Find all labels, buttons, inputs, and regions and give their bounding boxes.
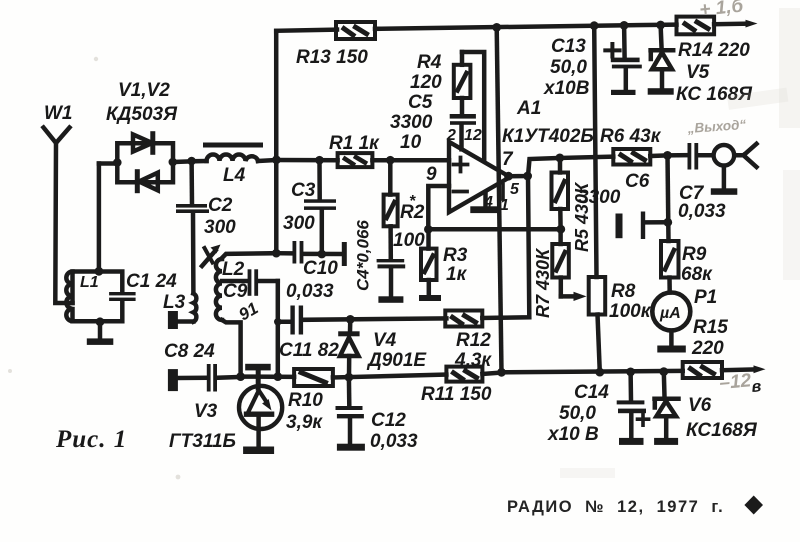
node V4 top bbox=[346, 315, 355, 324]
svg-text:С6: С6 bbox=[625, 171, 650, 192]
meter P1 bbox=[652, 293, 690, 346]
capacitor C7 bbox=[688, 143, 714, 170]
wire riser down to R12 bbox=[501, 176, 529, 318]
resistor R5 bbox=[552, 158, 569, 229]
svg-text:КС168Я: КС168Я bbox=[686, 420, 758, 441]
terminal bar C8 bbox=[168, 369, 178, 391]
svg-text:3,9к: 3,9к bbox=[286, 412, 323, 433]
node rail x594 bbox=[590, 21, 599, 30]
ground V6 bbox=[654, 438, 678, 445]
inductor L1 bbox=[66, 272, 72, 322]
wire R10 to R11 bbox=[333, 375, 447, 378]
wire R6 node down bbox=[668, 155, 669, 241]
node bus C14 bbox=[626, 368, 635, 377]
svg-text:К1УТ402Б: К1УТ402Б bbox=[502, 126, 594, 147]
svg-text:ГТ311Б: ГТ311Б bbox=[169, 431, 236, 452]
wire tank ground stub bbox=[98, 322, 103, 339]
ground V5 bbox=[648, 88, 674, 95]
svg-text:R14 220: R14 220 bbox=[678, 40, 750, 61]
svg-text:+ 1,б: + 1,б bbox=[698, 0, 745, 21]
inductor L2 bbox=[216, 259, 222, 320]
resistor R10 bbox=[294, 369, 333, 386]
wire inverting input bbox=[428, 186, 449, 229]
svg-text:С2: С2 bbox=[208, 195, 233, 216]
svg-text:R9: R9 bbox=[682, 244, 707, 265]
arrow wiper head bbox=[574, 292, 587, 301]
svg-text:V4: V4 bbox=[373, 330, 397, 351]
node bridge left bbox=[113, 158, 122, 167]
svg-text:300: 300 bbox=[283, 213, 315, 234]
svg-text:С8 24: С8 24 bbox=[164, 341, 215, 362]
resistor R14 bbox=[677, 17, 715, 35]
node R6 right bbox=[663, 151, 672, 160]
svg-text:С9: С9 bbox=[223, 281, 248, 302]
svg-text:С1 24: С1 24 bbox=[126, 271, 177, 292]
svg-text:С10: С10 bbox=[303, 258, 338, 279]
pin 1 stub bbox=[501, 185, 505, 200]
node tank top bbox=[95, 267, 104, 276]
svg-text:*: * bbox=[409, 193, 416, 210]
svg-text:С12: С12 bbox=[371, 410, 406, 431]
wire L4 segment bbox=[192, 160, 277, 161]
svg-text:7: 7 bbox=[502, 149, 514, 170]
wire corner to C11 bbox=[278, 320, 291, 325]
node V4 bottom bbox=[345, 373, 354, 382]
svg-text:А1: А1 bbox=[516, 98, 541, 119]
node L2 top junction bbox=[272, 249, 281, 258]
tank circuit L1 C1 loop bbox=[73, 272, 123, 322]
svg-text:R12: R12 bbox=[456, 330, 491, 351]
wire rail to R8 bbox=[594, 26, 596, 277]
pin 4 ground stub bbox=[483, 193, 488, 207]
transistor V3 bbox=[239, 364, 282, 447]
arrow supply right bbox=[746, 20, 758, 28]
ground C12 bbox=[337, 444, 365, 451]
wire bridge frame bbox=[117, 143, 191, 182]
resistor R15 bbox=[683, 362, 722, 378]
svg-text:0,033: 0,033 bbox=[678, 201, 726, 222]
wire vertical x498 rail to bottom bbox=[497, 27, 502, 372]
inductor L3 bbox=[193, 294, 196, 322]
resistor R2 bbox=[384, 160, 398, 259]
capacitor C3 bbox=[304, 160, 336, 254]
svg-text:W1: W1 bbox=[44, 103, 73, 124]
svg-text:Рис. 1: Рис. 1 bbox=[55, 426, 127, 453]
svg-text:R3: R3 bbox=[443, 245, 468, 266]
capacitor C12 bbox=[336, 377, 364, 444]
svg-text:–12: –12 bbox=[719, 370, 753, 394]
wire C10 run bbox=[276, 251, 342, 256]
connector X1 output bbox=[714, 144, 757, 189]
svg-text:С13: С13 bbox=[551, 36, 586, 57]
capacitor C13 bbox=[611, 25, 642, 90]
arrow tuning L2 bbox=[202, 245, 221, 267]
node R3 top bbox=[424, 225, 433, 234]
svg-text:V3: V3 bbox=[194, 401, 218, 422]
svg-text:R8: R8 bbox=[611, 281, 636, 302]
terminal bar L3 bbox=[168, 311, 178, 329]
antenna W1 bbox=[44, 128, 73, 304]
node bus R8 bbox=[595, 368, 604, 377]
wire R4 C5 loop bbox=[462, 52, 484, 161]
op-amp A1 triangle bbox=[449, 142, 510, 212]
capacitor C11 bbox=[290, 306, 446, 335]
svg-text:С4*0,066: С4*0,066 bbox=[354, 220, 373, 291]
capacitor C10 bbox=[293, 241, 304, 264]
decoration diamond bbox=[744, 496, 763, 515]
svg-text:L2: L2 bbox=[222, 259, 245, 280]
wire C8 left bbox=[178, 376, 207, 381]
svg-text:0,033: 0,033 bbox=[286, 281, 334, 302]
capacitor C9 bbox=[248, 269, 278, 296]
svg-text:L3: L3 bbox=[163, 292, 186, 313]
op-amp minus input sign bbox=[454, 190, 468, 194]
svg-text:R13 150: R13 150 bbox=[296, 47, 368, 68]
node bridge right bbox=[169, 158, 178, 167]
node rail x497 bbox=[492, 23, 501, 32]
svg-text:х10В: х10В bbox=[543, 78, 590, 99]
wire base run bbox=[241, 374, 295, 379]
node bus R11 bbox=[497, 368, 506, 377]
wire L2 top bbox=[222, 253, 276, 258]
svg-text:120: 120 bbox=[410, 72, 442, 93]
wire R6 run bbox=[560, 155, 688, 158]
resistor R12 bbox=[445, 311, 482, 327]
node L4 junction bbox=[272, 155, 281, 164]
svg-text:220: 220 bbox=[691, 338, 724, 359]
svg-text:12: 12 bbox=[464, 127, 482, 144]
node R2 junction bbox=[386, 156, 395, 165]
node output apex bbox=[504, 172, 513, 181]
node R5 top bbox=[555, 154, 564, 163]
svg-text:в: в bbox=[751, 378, 762, 396]
wire C9 down to C11 bbox=[276, 281, 281, 377]
node tank bottom bbox=[96, 317, 105, 326]
svg-text:V1,V2: V1,V2 bbox=[118, 80, 170, 101]
svg-text:х10 В: х10 В bbox=[547, 424, 599, 445]
top supply rail bbox=[276, 24, 748, 32]
resistor R13 bbox=[336, 22, 375, 39]
ground R3 bbox=[419, 295, 441, 301]
zener V5 bbox=[651, 25, 674, 89]
svg-text:С14: С14 bbox=[574, 382, 609, 403]
svg-text:2: 2 bbox=[446, 127, 456, 144]
inductor L4 bbox=[203, 143, 263, 162]
svg-text:Р1: Р1 bbox=[694, 287, 717, 308]
resistor R3 bbox=[421, 229, 437, 295]
wire feedback bus bbox=[428, 227, 561, 232]
diode V4 bbox=[338, 319, 359, 377]
diode V1 bbox=[133, 134, 153, 153]
node C6 junction bbox=[663, 218, 672, 227]
wire bridge-to-tank bbox=[97, 164, 102, 271]
wire L3 bottom bbox=[179, 319, 193, 324]
node base right bbox=[273, 372, 282, 381]
resistor R6 bbox=[613, 149, 650, 165]
svg-text:R11 150: R11 150 bbox=[421, 384, 492, 405]
zener V6 bbox=[655, 372, 679, 439]
ground V3 emitter bbox=[243, 447, 274, 455]
capacitor C2 bbox=[176, 161, 209, 293]
node C11 corner bbox=[274, 318, 282, 326]
wire output to riser bbox=[509, 158, 560, 176]
op-amp plus input sign bbox=[454, 158, 468, 172]
node rail C13 bbox=[620, 21, 629, 30]
wire rail left corner down bbox=[274, 31, 279, 253]
svg-text:V5: V5 bbox=[686, 62, 710, 83]
bottom bus bbox=[502, 369, 755, 372]
svg-text:3300: 3300 bbox=[390, 112, 433, 133]
node output riser bbox=[523, 172, 532, 181]
svg-text:100к: 100к bbox=[609, 301, 652, 322]
node base left bbox=[236, 372, 245, 381]
svg-text:300: 300 bbox=[204, 217, 236, 238]
resistor R4 bbox=[454, 52, 471, 114]
svg-text:КД503Я: КД503Я bbox=[106, 104, 178, 125]
node bus V6 bbox=[659, 367, 668, 376]
capacitor C5 bbox=[450, 114, 476, 125]
svg-text:„Выход“: „Выход“ bbox=[686, 117, 747, 136]
resistor R1 bbox=[338, 153, 373, 167]
arrow bus right bbox=[754, 365, 766, 373]
svg-text:10: 10 bbox=[400, 132, 422, 153]
wire R12 right bbox=[482, 315, 501, 320]
svg-text:R4: R4 bbox=[417, 52, 442, 73]
terminal bar C4 bbox=[342, 242, 347, 266]
svg-text:L1: L1 bbox=[80, 274, 99, 291]
ground C14 bbox=[619, 438, 644, 445]
svg-text:V6: V6 bbox=[688, 395, 712, 416]
potentiometer R8 bbox=[589, 277, 606, 315]
wire bridge input bbox=[99, 161, 117, 166]
ground connector bbox=[711, 188, 738, 195]
node rail V5 bbox=[656, 21, 665, 30]
capacitor C6 bbox=[616, 212, 668, 240]
svg-text:РАДИО № 12, 1977 г.: РАДИО № 12, 1977 г. bbox=[507, 498, 724, 516]
wire R1 to opamp bbox=[276, 158, 449, 163]
ground C4 bbox=[378, 296, 403, 303]
svg-text:3300: 3300 bbox=[578, 187, 621, 208]
svg-text:R15: R15 bbox=[693, 317, 728, 338]
resistor R9 bbox=[661, 241, 679, 293]
ground meter bbox=[657, 346, 686, 353]
plus sign C14 bbox=[638, 413, 649, 425]
diode V2 bbox=[137, 172, 158, 191]
wire wiper arrow to R8 bbox=[561, 294, 577, 299]
ground C13 bbox=[611, 90, 636, 95]
ground tank bbox=[87, 338, 114, 345]
svg-text:С5: С5 bbox=[408, 92, 433, 113]
svg-text:R10: R10 bbox=[288, 390, 323, 411]
svg-text:5: 5 bbox=[510, 181, 520, 198]
capacitor C1 bbox=[109, 292, 136, 301]
svg-text:С3: С3 bbox=[291, 180, 316, 201]
capacitor C14 bbox=[617, 372, 646, 438]
svg-text:1к: 1к bbox=[446, 264, 468, 285]
resistor R7 bbox=[552, 229, 569, 296]
svg-text:L4: L4 bbox=[223, 165, 246, 186]
svg-text:50,0: 50,0 bbox=[550, 57, 587, 78]
node C10 C3 junction bbox=[318, 250, 327, 259]
svg-text:R1 1к: R1 1к bbox=[329, 133, 380, 154]
wire R11 right bbox=[482, 373, 501, 375]
node C2 junction bbox=[187, 157, 196, 166]
wire L2 tap to C9 bbox=[222, 279, 248, 284]
pin 2 stub bbox=[459, 125, 464, 150]
capacitor C8 bbox=[207, 364, 241, 392]
ground op-amp bbox=[470, 206, 499, 213]
svg-text:9: 9 bbox=[426, 164, 437, 185]
node C3 junction bbox=[315, 156, 324, 165]
plus sign C13 bbox=[605, 44, 619, 57]
svg-text:R6 43к: R6 43к bbox=[600, 126, 662, 147]
svg-text:0,033: 0,033 bbox=[370, 431, 418, 452]
node R5 bottom bus end bbox=[556, 225, 565, 234]
svg-text:Д901Е: Д901Е bbox=[366, 350, 427, 371]
svg-text:µА: µА bbox=[659, 305, 681, 322]
svg-text:С11 82: С11 82 bbox=[279, 340, 339, 361]
svg-text:50,0: 50,0 bbox=[559, 403, 596, 424]
wire L2 bottom bbox=[222, 320, 241, 376]
svg-text:R7 430К: R7 430К bbox=[533, 247, 553, 318]
wire R8 to bus bbox=[598, 315, 600, 373]
svg-text:68к: 68к bbox=[681, 264, 713, 285]
resistor R11 bbox=[446, 367, 482, 382]
capacitor C4 bbox=[377, 259, 406, 297]
